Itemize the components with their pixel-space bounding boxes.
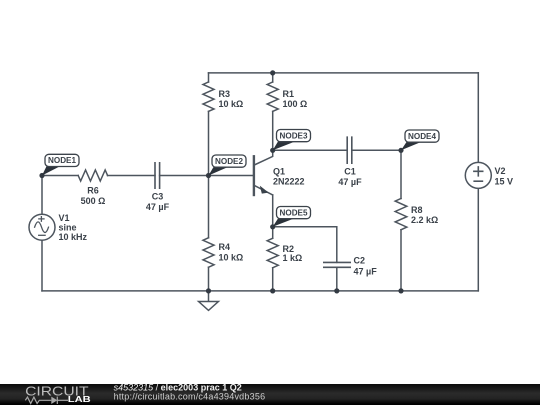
wire node5 to C2 (273, 227, 337, 263)
resistor R2 (267, 238, 278, 267)
wire R2 branch (272, 227, 274, 291)
ground (208, 291, 210, 302)
svg-text:LAB: LAB (68, 395, 91, 404)
svg-text:NODE2: NODE2 (215, 156, 243, 166)
svg-text:Q1: Q1 (273, 167, 285, 177)
svg-text:C1: C1 (344, 167, 356, 177)
wire R1 branch (272, 73, 274, 150)
wire node1 to R6 (42, 175, 78, 177)
wire R3 branch (208, 73, 210, 176)
capacitor C2 (324, 262, 350, 267)
resistor R4 (203, 238, 214, 267)
svg-text:sine: sine (59, 223, 77, 233)
wire C1 to node4 (352, 149, 401, 151)
svg-text:R3: R3 (219, 89, 231, 99)
node label NODE2 (209, 155, 247, 176)
node label NODE5 (273, 207, 311, 227)
node NODE1 (39, 173, 44, 178)
wire V2 branch right side (477, 73, 479, 291)
wire bottom rail (42, 290, 478, 292)
resistor R3 (203, 82, 214, 111)
svg-text:NODE5: NODE5 (280, 207, 308, 217)
resistor R8 (395, 199, 407, 230)
svg-text:NODE1: NODE1 (48, 155, 76, 165)
resistor R1 (267, 82, 278, 111)
wire node2 to Q1 base (209, 175, 254, 177)
svg-text:15 V: 15 V (495, 176, 514, 186)
svg-text:47 µF: 47 µF (338, 177, 362, 187)
wire Q1 emitter to node5 (272, 195, 274, 227)
wire R4 branch (208, 176, 210, 291)
svg-text:NODE3: NODE3 (280, 130, 308, 140)
node top rail R1 (270, 70, 275, 75)
wire C2 to bottom rail (336, 267, 338, 291)
svg-text:2.2 kΩ: 2.2 kΩ (411, 215, 438, 225)
svg-text:10 kΩ: 10 kΩ (219, 99, 244, 109)
voltage source V2 (465, 162, 491, 188)
junction bottom R2 (270, 288, 275, 293)
wire V1 branch left side (41, 176, 43, 291)
wire R6 to C3 (108, 175, 156, 177)
junction bottom R4 (206, 288, 211, 293)
svg-text:R8: R8 (411, 205, 423, 215)
svg-text:http://circuitlab.com/c4a4394v: http://circuitlab.com/c4a4394vdb356 (114, 392, 266, 402)
node NODE5 (270, 224, 275, 229)
node label NODE4 (401, 130, 439, 150)
resistor R6 (78, 170, 107, 181)
junction bottom C2 (334, 288, 339, 293)
wire R8 branch (400, 150, 402, 291)
svg-text:47 µF: 47 µF (146, 202, 170, 212)
svg-text:NODE4: NODE4 (408, 131, 436, 141)
svg-text:1 kΩ: 1 kΩ (283, 253, 303, 263)
node NODE2 (206, 173, 211, 178)
svg-text:R6: R6 (87, 186, 99, 196)
svg-text:R4: R4 (219, 242, 231, 252)
node label NODE1 (42, 154, 79, 175)
wire C3 to node2 (160, 175, 209, 177)
svg-text:R1: R1 (283, 89, 295, 99)
voltage source V1 (29, 214, 55, 240)
capacitor C3 (155, 163, 160, 188)
svg-text:10 kΩ: 10 kΩ (219, 253, 244, 263)
junction bottom R8 (398, 288, 403, 293)
svg-text:47 µF: 47 µF (354, 267, 378, 277)
node NODE3 (270, 148, 275, 153)
transistor Q1 (254, 150, 273, 195)
svg-text:C3: C3 (152, 192, 164, 202)
svg-text:C2: C2 (354, 256, 366, 266)
svg-text:500 Ω: 500 Ω (81, 196, 106, 206)
node label NODE3 (273, 130, 311, 151)
svg-text:10 kHz: 10 kHz (59, 232, 88, 242)
wire node3 to C1 (273, 149, 348, 151)
svg-text:V1: V1 (59, 213, 70, 223)
svg-text:100 Ω: 100 Ω (283, 99, 308, 109)
node NODE4 (398, 148, 403, 153)
svg-text:V2: V2 (495, 166, 506, 176)
logo squiggle resistor+diode (25, 397, 68, 404)
svg-text:2N2222: 2N2222 (273, 176, 305, 186)
wire top rail (209, 72, 479, 74)
capacitor C1 (347, 137, 352, 163)
